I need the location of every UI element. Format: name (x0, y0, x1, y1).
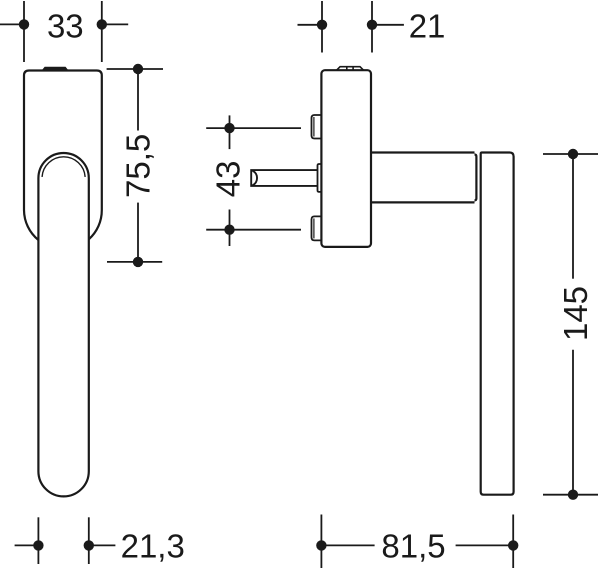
side view spindle rod (251, 170, 317, 186)
dimension 33 dot left (19, 19, 29, 29)
dimension 33 dot right (97, 19, 107, 29)
svg-text:43: 43 (209, 161, 246, 198)
front view neck inner arc (double line at grip top) (42, 157, 85, 177)
side view lower fixing tab (312, 216, 322, 240)
dimension 145 extension tick top (543, 153, 598, 155)
side view lever bar (481, 153, 514, 495)
front view rosette plate (24, 71, 102, 241)
dimension 81,5 extension line left (320, 515, 322, 569)
front view top cap (filled) (42, 67, 68, 70)
svg-text:145: 145 (557, 286, 594, 341)
dimension 43 dimension line (229, 115, 231, 246)
front view lever grip (stadium outline) (38, 153, 88, 496)
dimension 21,3 dimension line (15, 544, 116, 546)
side view rosette plate (321, 70, 371, 247)
svg-text:81,5: 81,5 (381, 528, 445, 565)
svg-text:21,3: 21,3 (121, 528, 185, 565)
side view upper fixing tab (312, 115, 322, 139)
dimension 33 extension line left (23, 1, 25, 62)
side view neck (square shank to lever) (371, 153, 476, 203)
dimension 75,5 extension tick top (107, 68, 163, 70)
dimension 75,5 dot top (133, 64, 143, 74)
dimension 145 dot bottom (568, 490, 578, 500)
dimension 145 dot top (568, 149, 578, 159)
dimension 81,5 dot left (316, 540, 326, 550)
dimension 21,3 dot right (84, 540, 94, 550)
dimension 21,3 extension line right (88, 517, 90, 564)
dimension 75,5 extension tick bottom (107, 261, 162, 263)
dimension 75,5 dimension line (137, 69, 139, 262)
dimension 81,5 extension line right (512, 515, 514, 569)
dimension 21 extension line left (321, 1, 323, 53)
dimension 33 extension line right (101, 1, 103, 62)
svg-text:21: 21 (409, 7, 446, 44)
side view spindle hub (318, 164, 322, 192)
dimension 21,3 extension line left (37, 517, 39, 564)
dimension 81,5 dot right (508, 540, 518, 550)
dimension 21 dot left (317, 20, 327, 30)
dimension 43 dot bottom (224, 225, 234, 235)
dimension 21 extension line right (371, 1, 373, 53)
side view top cap outline (337, 67, 364, 70)
dimension 75,5 dot bottom (133, 257, 143, 267)
dimension 21,3 dot left (33, 540, 43, 550)
svg-text:75,5: 75,5 (120, 134, 157, 198)
dimension 33 dimension line (0, 23, 128, 25)
dimension 21 dot right (367, 20, 377, 30)
dimension 145 extension tick bottom (543, 494, 598, 496)
dimension 145 dimension line (572, 154, 574, 495)
dimension 21 dimension line (298, 24, 404, 26)
svg-text:33: 33 (47, 7, 84, 44)
dimension 81,5 dimension line (321, 544, 513, 546)
dimension 43 extension line bottom (206, 229, 301, 231)
dimension 43 extension line top (206, 127, 301, 129)
dimension 43 dot top (224, 123, 234, 133)
